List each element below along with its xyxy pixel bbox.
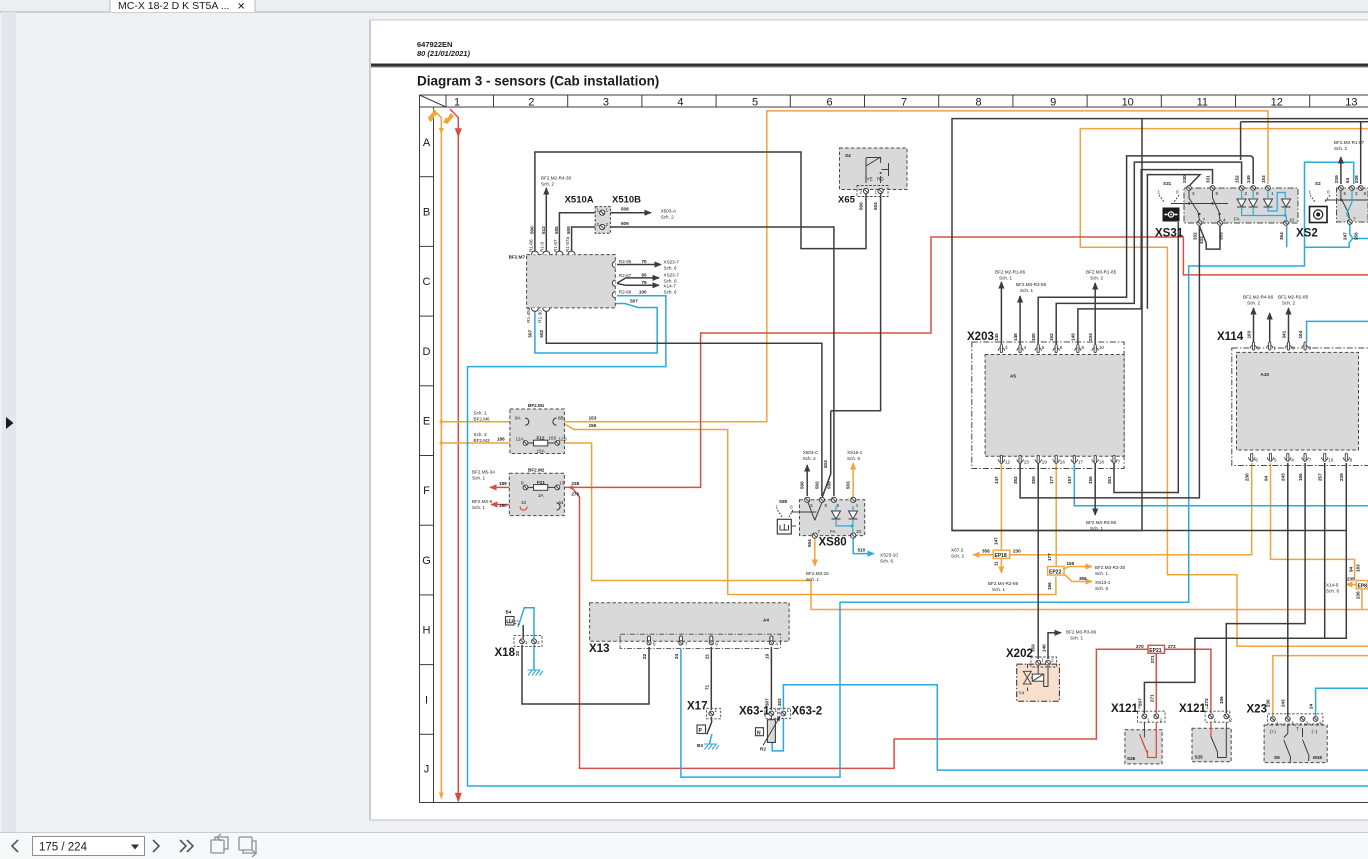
svg-text:332: 332: [1192, 232, 1197, 240]
svg-text:X14-7: X14-7: [664, 284, 677, 289]
svg-text:10: 10: [1122, 97, 1134, 109]
svg-text:155: 155: [1067, 561, 1075, 566]
svg-text:7: 7: [901, 97, 907, 109]
svg-text:17: 17: [1078, 460, 1084, 465]
svg-text:B3: B3: [697, 743, 703, 748]
svg-text:190: 190: [499, 503, 507, 508]
svg-text:330: 330: [1031, 333, 1036, 341]
svg-text:Sch. 1: Sch. 1: [1020, 288, 1033, 293]
svg-text:M18: M18: [1313, 755, 1322, 760]
wire 239 : X114 pin8 down: [1325, 463, 1347, 638]
svg-text:94: 94: [1349, 566, 1354, 572]
svg-text:R1-87a: R1-87a: [565, 236, 570, 252]
wire 147 : X203 pin12 to EP18: [1000, 463, 1002, 550]
svg-text:R2-67: R2-67: [619, 273, 632, 278]
svg-text:10: 10: [1328, 458, 1334, 463]
svg-text:Sch. 2: Sch. 2: [1282, 301, 1295, 306]
svg-text:BF2.M3-R3-86: BF2.M3-R3-86: [1086, 520, 1117, 525]
svg-text:177: 177: [1047, 553, 1052, 561]
svg-text:238: 238: [1354, 175, 1359, 183]
svg-text:BF2.M2: BF2.M2: [528, 468, 545, 473]
svg-text:235: 235: [1347, 577, 1355, 582]
wire 272 : EP21 to X121-2 pin 1: [1164, 649, 1211, 713]
svg-text:12: 12: [1271, 97, 1283, 109]
diodes inside XS80: [832, 511, 841, 519]
svg-text:Sch. 6: Sch. 6: [1326, 589, 1339, 594]
svg-text:307: 307: [765, 698, 770, 706]
svg-text:271: 271: [1149, 694, 1154, 702]
svg-text:22: 22: [642, 653, 647, 659]
svg-text:F: F: [423, 485, 430, 497]
wire 19 : X13 pin4 to X63-1: [770, 647, 772, 710]
svg-text:S26: S26: [1127, 756, 1136, 761]
svg-text:509: 509: [827, 481, 832, 489]
svg-text:3: 3: [1192, 191, 1195, 196]
wire 236 : to X23 pin 1: [1273, 656, 1368, 716]
connector X121 (right) + switch S25: [1179, 696, 1233, 762]
svg-text:354: 354: [1279, 232, 1284, 240]
svg-text:1: 1: [787, 708, 790, 713]
svg-text:9: 9: [837, 503, 840, 508]
svg-text:3: 3: [1355, 191, 1358, 196]
svg-text:4: 4: [1319, 721, 1322, 726]
svg-text:12B: 12B: [559, 437, 567, 442]
svg-text:183: 183: [1356, 564, 1361, 572]
wire 183 : X114 pin5 to EP8: [1271, 463, 1355, 580]
pin labels BF2.M7 top: [526, 226, 679, 338]
svg-text:6: 6: [1060, 345, 1063, 350]
svg-text:9: 9: [521, 481, 524, 486]
svg-text:X114: X114: [1217, 331, 1244, 343]
svg-text:Sch. 1: Sch. 1: [472, 505, 485, 510]
svg-text:504: 504: [807, 539, 812, 547]
svg-text:54: 54: [559, 500, 565, 505]
svg-text:341: 341: [1281, 330, 1286, 338]
svg-text:7: 7: [1118, 460, 1121, 465]
svg-text:B4: B4: [506, 610, 512, 615]
svg-text:1: 1: [597, 208, 600, 213]
wire X203 pin3 arrow up BF2.M2-R1-86: [1000, 282, 1002, 344]
wire 100 : BF2.M7 R2-66 loop down to bottom rail: [468, 296, 1368, 786]
wire 24/ X13 pin7 to XS31 via risers: [681, 162, 1354, 777]
wire APC supply (orange, col 1): [433, 109, 441, 793]
svg-text:Sch. 1: Sch. 1: [1070, 636, 1083, 641]
svg-text:Sch. 2: Sch. 2: [951, 554, 964, 559]
svg-text:1: 1: [1273, 346, 1276, 351]
wire 508 : X510 to X503-A arrow: [608, 212, 652, 214]
svg-text:Sch. 1: Sch. 1: [1095, 571, 1108, 576]
svg-text:22: 22: [515, 650, 520, 656]
svg-text:239: 239: [1339, 473, 1344, 481]
svg-text:2: 2: [1051, 658, 1054, 663]
svg-text:X17: X17: [687, 701, 707, 713]
svg-text:A10: A10: [1261, 372, 1270, 377]
wire 504 : X65 pin 1 down join: [822, 194, 880, 497]
svg-text:Sch. 6: Sch. 6: [847, 456, 860, 461]
svg-text:10: 10: [856, 529, 862, 534]
svg-text:Sch. 2: Sch. 2: [1334, 146, 1347, 151]
ECU X13 (A4): [589, 603, 789, 690]
svg-text:153: 153: [1261, 175, 1266, 183]
svg-text:1: 1: [1309, 190, 1312, 195]
junction dots APC: [440, 420, 444, 424]
svg-text:Sch. 2: Sch. 2: [803, 456, 816, 461]
svg-text:351: 351: [1107, 476, 1112, 484]
relay valve X202 (Y4): [1006, 644, 1059, 701]
svg-text:148: 148: [1013, 333, 1018, 341]
svg-text:EP22: EP22: [1049, 569, 1061, 575]
svg-text:1: 1: [1214, 718, 1217, 723]
svg-text:5: 5: [1274, 458, 1277, 463]
svg-text:X65: X65: [838, 195, 856, 206]
wire X18 switch and ground: [518, 608, 534, 639]
wire X17 ground stub: [710, 734, 712, 744]
svg-text:80 (21/01/2021): 80 (21/01/2021): [417, 49, 470, 58]
svg-text:BF2.M3-R1-87: BF2.M3-R1-87: [1334, 140, 1365, 145]
svg-text:BF2.M6: BF2.M6: [474, 417, 491, 422]
svg-text:1: 1: [1271, 191, 1274, 196]
wire R2 bottom to X63-2 pin: [772, 718, 783, 751]
svg-text:18: 18: [1099, 460, 1105, 465]
svg-text:13: 13: [1345, 97, 1357, 109]
svg-text:10: 10: [1289, 218, 1295, 223]
svg-text:243: 243: [1281, 473, 1286, 481]
wire X17 switch lever: [707, 717, 712, 735]
svg-text:506: 506: [800, 481, 805, 489]
svg-text:BF2.M5-3A: BF2.M5-3A: [472, 470, 496, 475]
contacts inside: [1189, 191, 1220, 220]
wire X114 pin1 up: [1269, 313, 1271, 342]
svg-text:R2-65: R2-65: [619, 259, 632, 264]
svg-text:256: 256: [1354, 232, 1359, 240]
fuse box BF2.M2: [472, 468, 580, 516]
svg-text:2: 2: [1160, 718, 1163, 723]
svg-text:2: 2: [1245, 191, 1248, 196]
svg-text:YE: YE: [867, 177, 873, 182]
svg-text:Sch. 1: Sch. 1: [474, 411, 487, 416]
ground X18: [528, 670, 544, 676]
svg-text:238: 238: [572, 481, 580, 486]
svg-text:106: 106: [1219, 696, 1224, 704]
wire 271 : EP21 down to X121-1 pin 2: [1155, 653, 1157, 713]
svg-text:15A: 15A: [537, 449, 546, 454]
svg-text:R1-87: R1-87: [553, 239, 558, 252]
bottom toolbar: [0, 832, 1368, 859]
svg-text:✕: ✕: [237, 2, 245, 13]
svg-text:9: 9: [1292, 346, 1295, 351]
svg-text:9: 9: [715, 642, 718, 647]
wire 140 : X202 pin2 arrow BF2.M3-R3-86: [1048, 633, 1061, 659]
svg-text:356: 356: [1079, 576, 1087, 581]
wire 352 : X203 pin13 to XS31 pin 7: [1020, 226, 1199, 498]
svg-text:239: 239: [1334, 175, 1339, 183]
svg-text:257: 257: [1318, 473, 1323, 481]
svg-text:236: 236: [1356, 591, 1361, 599]
wire 509 : X510B to XS80 pin 9: [572, 227, 597, 252]
svg-text:X503-C: X503-C: [803, 450, 819, 455]
svg-text:XS13-1: XS13-1: [1095, 580, 1111, 585]
svg-text:12A: 12A: [516, 437, 525, 442]
terminal EP22: [1047, 553, 1126, 591]
sensor B4 + connector X18: [495, 610, 543, 660]
svg-text:1: 1: [454, 97, 460, 109]
wire 243 : X114 pin4 to X23 pin 2: [1287, 463, 1289, 716]
svg-text:FA: FA: [1234, 217, 1241, 222]
svg-text:BF2.M2-R4-30: BF2.M2-R4-30: [541, 176, 572, 181]
connector X121 (left) + switch S26: [1111, 694, 1165, 764]
svg-text:(+): (+): [1270, 729, 1276, 734]
svg-text:XS23-10: XS23-10: [880, 553, 898, 558]
svg-text:1: 1: [1041, 658, 1044, 663]
wire 507 : BF2.M7 loop: [535, 304, 657, 354]
svg-text:8: 8: [1350, 458, 1353, 463]
wire 177 : X203 pin16 to EP22: [1055, 463, 1057, 566]
svg-text:10: 10: [1099, 345, 1105, 350]
svg-text:1: 1: [856, 503, 859, 508]
wire X18 switch stub: [522, 625, 524, 639]
svg-text:BF2.M7: BF2.M7: [509, 255, 526, 260]
svg-text:234: 234: [1088, 333, 1093, 341]
svg-text:507: 507: [630, 298, 638, 303]
svg-text:243: 243: [1281, 699, 1286, 707]
svg-text:BF2.M2-R1-86: BF2.M2-R1-86: [995, 270, 1026, 275]
svg-text:XS31: XS31: [1155, 228, 1184, 240]
svg-text:11: 11: [1197, 97, 1208, 109]
svg-text:9: 9: [1082, 345, 1085, 350]
svg-text:J: J: [424, 764, 430, 776]
svg-text:65: 65: [642, 272, 648, 277]
svg-text:152: 152: [1235, 175, 1240, 183]
wire X114 pin2 arrow up: [1253, 308, 1255, 342]
wire 156a : X203 pin18 arrow down BF2.M3-R3-86: [1094, 463, 1096, 515]
svg-text:S2: S2: [1315, 181, 1321, 186]
wire 505 : BF2.M7 R1-87 to X510A: [559, 213, 597, 252]
svg-text:X18: X18: [495, 647, 516, 659]
svg-text:149: 149: [1246, 175, 1251, 183]
svg-text:1: 1: [1147, 718, 1150, 723]
svg-text:4: 4: [1223, 218, 1226, 223]
svg-text:359: 359: [1031, 644, 1036, 652]
svg-text:508: 508: [621, 207, 629, 212]
wire BF2.M4-R2-86 arrow below EP18: [1000, 558, 1002, 573]
connector X65: [838, 186, 888, 211]
svg-text:13: 13: [1024, 460, 1030, 465]
svg-text:157: 157: [1067, 476, 1072, 484]
svg-text:230: 230: [1245, 473, 1250, 481]
svg-text:502: 502: [539, 329, 544, 337]
ECU X114 (A10): [1217, 330, 1368, 481]
svg-text:647922EN: 647922EN: [417, 40, 452, 49]
svg-text:9: 9: [1256, 191, 1259, 196]
svg-text:X14-5: X14-5: [1326, 583, 1339, 588]
svg-text:506: 506: [530, 226, 535, 234]
svg-text:XS80: XS80: [819, 537, 847, 549]
svg-text:S4: S4: [845, 153, 851, 158]
wire 351 : X203 pin7 up right: [1114, 222, 1178, 493]
connector X63-1 / X63-2 + resistor R2: [739, 698, 822, 752]
wire 503 : XS80 pin1 up arrow XS16-1: [852, 463, 854, 497]
wire 70 : BF2.M7 R2-65 arrow XS23-7: [617, 264, 661, 266]
svg-text:145: 145: [994, 333, 999, 341]
svg-text:21: 21: [704, 653, 709, 659]
svg-text:D: D: [423, 346, 431, 358]
svg-text:5: 5: [825, 503, 828, 508]
svg-text:10: 10: [521, 500, 527, 505]
wire 359 : X203 pin19 to X202 pin 1: [1037, 463, 1039, 659]
svg-text:303: 303: [777, 698, 782, 706]
svg-text:7: 7: [685, 642, 688, 647]
svg-text:T: T: [1296, 727, 1299, 732]
svg-text:R1-66: R1-66: [528, 239, 533, 252]
svg-text:5: 5: [1344, 191, 1347, 196]
svg-text:64: 64: [1345, 177, 1350, 183]
svg-text:Sch. 1: Sch. 1: [992, 587, 1005, 592]
svg-text:XS2: XS2: [1296, 228, 1318, 240]
svg-text:189: 189: [499, 481, 507, 486]
svg-text:156: 156: [1088, 476, 1093, 484]
wire 235 arrow from EP8 to X14-5: [1346, 584, 1357, 586]
svg-text:X13: X13: [589, 643, 609, 655]
wire XS31 pin10 stub: [1286, 226, 1288, 247]
svg-text:2: 2: [860, 190, 863, 195]
svg-text:X121: X121: [1111, 703, 1138, 715]
svg-text:(−): (−): [1312, 729, 1318, 734]
svg-text:BF2.M3-R3-86: BF2.M3-R3-86: [1016, 282, 1047, 287]
svg-text:504: 504: [823, 460, 828, 468]
svg-text:Sch. 6: Sch. 6: [664, 266, 677, 271]
wire XS2 pin8 up left: [1241, 122, 1368, 184]
svg-text:Sch. 2: Sch. 2: [1090, 276, 1103, 281]
svg-text:247: 247: [1343, 232, 1348, 240]
svg-text:H: H: [423, 625, 431, 637]
wire 510 : XS80 pin10 arrow XS23-10: [853, 538, 874, 554]
wire orange top right loop to X203 area: [1080, 129, 1368, 647]
svg-text:4: 4: [677, 97, 683, 109]
fuse box BF2.M1: [474, 403, 597, 454]
svg-text:153: 153: [589, 415, 597, 420]
terminal EP21: [1136, 644, 1176, 663]
svg-text:X202: X202: [1006, 648, 1033, 660]
terminal EP18: [951, 537, 1021, 592]
wire 157 : X203 pin17 to right edge: [1074, 463, 1368, 506]
svg-text:Sch. 2: Sch. 2: [541, 182, 554, 187]
svg-text:A5: A5: [1010, 374, 1016, 379]
svg-text:156: 156: [589, 423, 597, 428]
svg-text:94: 94: [1263, 475, 1268, 481]
svg-text:X510B: X510B: [612, 195, 641, 206]
svg-text:505: 505: [554, 226, 559, 234]
svg-text:352: 352: [1013, 476, 1018, 484]
switch S2 symbol: [1296, 181, 1330, 240]
wire 506b : XS80 pin3 arrow up X503-C: [806, 465, 808, 496]
wire X114 pin9 arrow up: [1288, 308, 1290, 342]
svg-text:S9: S9: [1274, 755, 1280, 760]
svg-text:331: 331: [1206, 175, 1211, 183]
wire 238 : BF2.M2 pin13 to right side: [560, 237, 1368, 487]
wire BF2.M3-R1-87 arrow : XS2 pin up: [1340, 157, 1342, 184]
diodes inside XS31: [1237, 199, 1246, 207]
svg-text:Sch. 1: Sch. 1: [472, 476, 485, 481]
svg-text:12: 12: [1005, 460, 1011, 465]
wire 230 : EP18 to X114 pin 6: [1009, 463, 1252, 555]
svg-text:152: 152: [1049, 333, 1054, 341]
sensor switch S80 + connector XS80: [776, 481, 866, 553]
wire 506 : BF2.M7 R1-66 to X65 pin 2: [535, 152, 866, 252]
svg-text:N: N: [757, 730, 761, 736]
svg-text:EP18: EP18: [995, 553, 1007, 559]
svg-text:C: C: [423, 276, 431, 288]
svg-text:0: 0: [1327, 190, 1330, 195]
svg-text:X63-1: X63-1: [739, 706, 770, 718]
svg-text:BF2.M3-R1-85: BF2.M3-R1-85: [1086, 270, 1117, 275]
svg-text:2: 2: [528, 97, 534, 109]
svg-text:S80: S80: [779, 499, 788, 504]
svg-text:19: 19: [764, 653, 769, 659]
svg-text:Sch. 6: Sch. 6: [664, 290, 677, 295]
svg-text:147: 147: [994, 476, 999, 484]
wire BF2.M3-9 arrow from BF2.M2 pin 10: [514, 488, 523, 504]
svg-text:507: 507: [528, 329, 533, 337]
svg-text:11: 11: [994, 561, 999, 566]
connector block XS2: [1325, 175, 1368, 240]
wire cyan to main riser: [1305, 239, 1353, 248]
switch S4 block above X65: [840, 148, 908, 190]
svg-text:330: 330: [1182, 175, 1187, 183]
connector block XS31: [1171, 175, 1298, 244]
svg-text:502: 502: [815, 481, 820, 489]
svg-text:X503-A: X503-A: [661, 208, 677, 213]
svg-text:X203: X203: [967, 331, 994, 343]
svg-text:BF2.M1: BF2.M1: [528, 403, 545, 408]
svg-text:XS23-7: XS23-7: [664, 273, 680, 278]
svg-text:X510A: X510A: [565, 195, 594, 206]
svg-text:Sch. 1: Sch. 1: [806, 577, 819, 582]
svg-text:8A: 8A: [515, 416, 522, 421]
wire cyan X114 pin3 feed from right edge: [1307, 321, 1368, 342]
svg-text:7: 7: [1203, 218, 1206, 223]
svg-text:MC-X 18-2 D K ST5A ...: MC-X 18-2 D K ST5A ...: [118, 0, 229, 12]
wire EP8 down to long run: [1361, 590, 1363, 610]
svg-text:B: B: [423, 207, 430, 219]
wire X67-2 arrow from EP18: [973, 554, 994, 556]
svg-text:230: 230: [1013, 549, 1021, 554]
wire A5 box to X114 pin8 riser: [952, 530, 1346, 532]
svg-text:EP21: EP21: [1149, 648, 1161, 654]
wire 106 : X114 pin7 to X121-2 pin 2: [1226, 463, 1305, 713]
svg-text:359: 359: [1031, 476, 1036, 484]
svg-text:4: 4: [1291, 458, 1294, 463]
svg-text:1: 1: [775, 708, 778, 713]
svg-text:S25: S25: [1195, 755, 1204, 760]
wire 333 : XS31 pin 4 stub: [1199, 226, 1220, 249]
svg-text:333: 333: [1199, 236, 1204, 244]
svg-text:2: 2: [1257, 346, 1260, 351]
wire 22 : X18 pin1 to X13 pin 6: [522, 645, 649, 704]
wire X203 pin10 arrow up BF2.M3-R1-85: [1094, 283, 1096, 344]
wire X63-2 to bottom right rail: [783, 685, 1368, 770]
wire 502 : BF2.M7 bottom to XS80 pin 5: [546, 309, 822, 496]
svg-text:BF2.M3-R3-86: BF2.M3-R3-86: [1066, 630, 1097, 635]
svg-text:A: A: [423, 137, 431, 149]
wire 155 arrow from EP22: [1063, 567, 1092, 570]
svg-text:X23: X23: [1247, 704, 1267, 716]
svg-text:177: 177: [1049, 476, 1054, 484]
svg-text:71: 71: [704, 684, 709, 690]
svg-text:R1-45a: R1-45a: [526, 307, 531, 323]
svg-text:S31: S31: [1163, 181, 1172, 186]
svg-text:BF2.M2-R2-85: BF2.M2-R2-85: [1278, 295, 1309, 300]
svg-text:140: 140: [1042, 644, 1047, 652]
